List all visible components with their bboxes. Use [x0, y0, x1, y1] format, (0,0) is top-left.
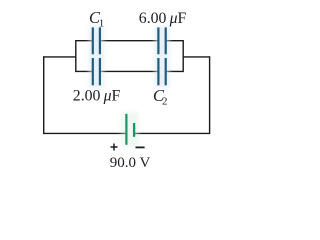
battery 90.0 V — [121, 112, 139, 147]
wire: right connector from inner loop to outer loop — [183, 56, 209, 58]
svg-text:90.0 V: 90.0 V — [110, 155, 151, 171]
wire: inner loop left side — [75, 40, 77, 72]
svg-text:6.00 μF: 6.00 μF — [139, 10, 187, 27]
battery minus sign — [136, 146, 145, 148]
svg-text:2.00 μF: 2.00 μF — [73, 88, 121, 105]
capacitor C2 (bottom right branch) — [155, 57, 170, 88]
wire: outer loop right vertical — [209, 56, 211, 134]
wire: inner loop top side, middle segment — [101, 40, 158, 42]
capacitor 2.00 uF (bottom left branch) — [89, 57, 104, 88]
wire: inner loop bottom side, left segment — [76, 70, 92, 72]
wire: outer loop left vertical — [43, 56, 45, 134]
wire: bottom wire, right of battery — [135, 132, 210, 134]
wire: left connector from outer loop to inner loop — [44, 56, 76, 58]
capacitor 6.00 uF (top right branch) — [155, 26, 170, 57]
wire: inner loop bottom side, right segment — [166, 70, 183, 72]
capacitor C1 (top left branch) — [89, 26, 104, 57]
wire: inner loop top side, right segment — [166, 40, 183, 42]
wire: inner loop bottom side, middle segment — [101, 70, 158, 72]
battery plus sign — [111, 144, 118, 151]
wire: inner loop right side — [182, 40, 184, 72]
wire: inner loop top side, left segment — [76, 40, 92, 42]
wire: bottom wire, left of battery — [44, 132, 126, 134]
